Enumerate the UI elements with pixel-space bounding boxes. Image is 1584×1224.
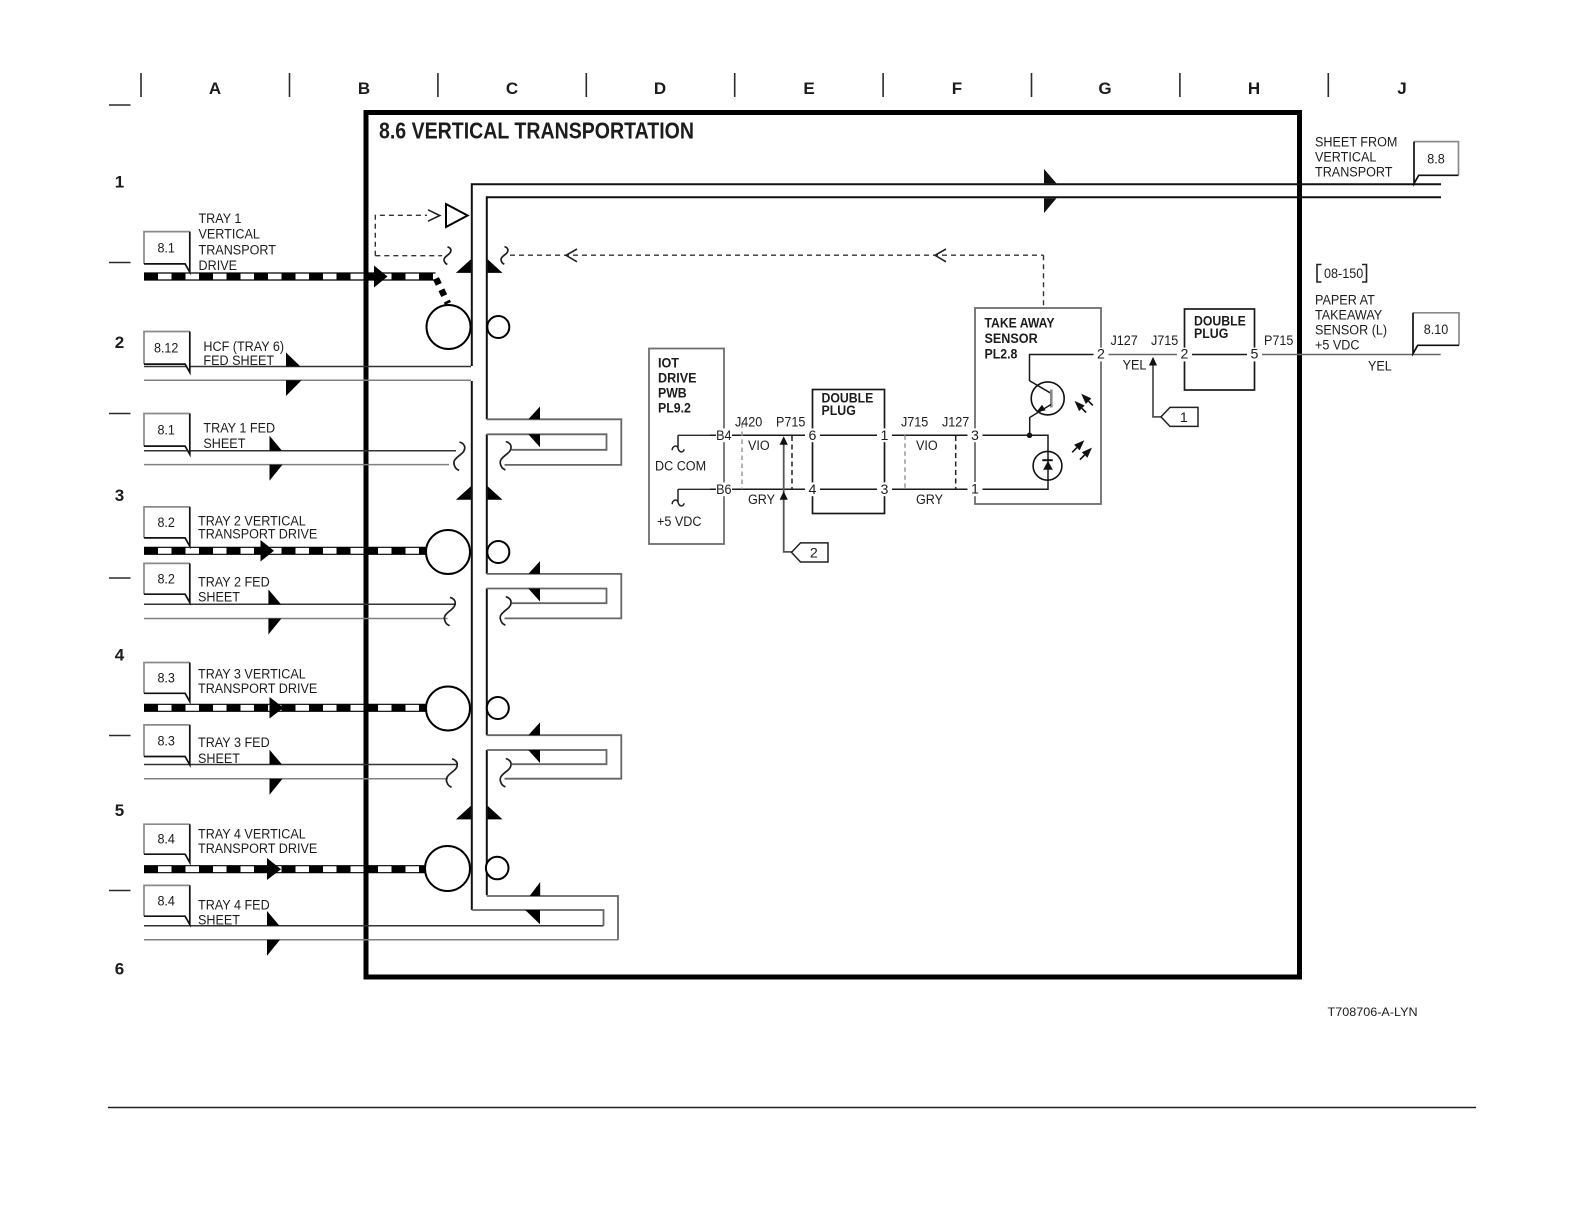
svg-text:PWB: PWB	[658, 386, 687, 401]
drive arrow tray3	[270, 697, 284, 719]
svg-text:FED SHEET: FED SHEET	[203, 353, 274, 369]
svg-text:8.6 VERTICAL TRANSPORTATION: 8.6 VERTICAL TRANSPORTATION	[379, 117, 694, 143]
Q1 emitter	[1030, 405, 1051, 436]
tray3 sheet arrows	[270, 750, 283, 765]
pin gaps + digits	[716, 348, 1262, 497]
svg-text:J: J	[1397, 79, 1406, 98]
flag 8.8	[1414, 142, 1459, 176]
channel left wall	[471, 183, 473, 910]
svg-text:5: 5	[1251, 346, 1259, 362]
adjust tag 08-150	[1317, 265, 1367, 283]
svg-text:C: C	[506, 79, 518, 98]
svg-text:VIO: VIO	[748, 438, 770, 454]
svg-text:PAPER AT: PAPER AT	[1315, 293, 1375, 309]
svg-text:8.1: 8.1	[157, 241, 175, 257]
flag 8.4 tray4 drive	[144, 824, 190, 854]
svg-text:H: H	[1248, 79, 1260, 98]
connector P715 dashed	[791, 436, 793, 489]
frame border	[366, 113, 1300, 978]
DP internal wires	[813, 434, 885, 436]
wire YEL sensor to DP2	[1101, 354, 1185, 356]
flag 8.2 tray2 drive	[144, 507, 190, 538]
DOUBLE PLUG box 2	[1185, 309, 1255, 390]
svg-text:8.2: 8.2	[157, 571, 175, 587]
svg-text:D: D	[654, 79, 666, 98]
drive stripe tray4	[144, 866, 425, 873]
tray2 inlet arrows	[528, 561, 540, 574]
svg-text:TRAY 2 FED: TRAY 2 FED	[198, 574, 270, 590]
svg-text:PL9.2: PL9.2	[658, 401, 691, 416]
sensor internal collector wire	[1030, 355, 1096, 394]
svg-text:SENSOR (L): SENSOR (L)	[1315, 323, 1387, 339]
svg-text:8.3: 8.3	[157, 671, 175, 687]
tray1 fed-sheet break curl left	[454, 442, 465, 471]
sheet arrow lower	[1044, 198, 1057, 213]
connector J715 dashed	[904, 435, 906, 489]
flag 8.1 tray1 fed	[144, 414, 190, 447]
svg-text:TRANSPORT: TRANSPORT	[1315, 165, 1393, 181]
flag 8.1 tray1 drive	[144, 232, 190, 264]
tray3 fed-sheet break curl left	[446, 759, 457, 788]
HCF sheet arrows	[286, 353, 301, 367]
svg-text:DRIVE: DRIVE	[199, 258, 238, 274]
svg-text:IOT: IOT	[658, 356, 680, 371]
pin B4 hook	[678, 434, 710, 436]
svg-text:PL2.8: PL2.8	[985, 347, 1018, 362]
wire B6-GRY	[710, 488, 813, 490]
svg-text:TRAY 3 FED: TRAY 3 FED	[198, 735, 270, 751]
tray2 fed-sheet break curl left	[444, 597, 455, 626]
svg-text:PLUG: PLUG	[822, 403, 856, 418]
tray3 inlet arrows	[528, 722, 540, 735]
tray1 inlet arrows	[528, 407, 540, 420]
svg-text:8.1: 8.1	[157, 422, 175, 438]
svg-text:SHEET: SHEET	[198, 912, 240, 928]
svg-text:5: 5	[115, 801, 124, 820]
tray4 inlet arrows	[530, 882, 541, 896]
wire + connector labels	[655, 333, 1392, 530]
svg-text:6: 6	[115, 960, 124, 979]
drive stripe tray3	[144, 704, 426, 711]
flag 8.2 tray2 fed	[144, 563, 190, 594]
svg-text:J127: J127	[942, 415, 969, 431]
connector J420 dashed	[741, 424, 743, 490]
tray1 fed sheet lines	[144, 450, 456, 452]
roller tray1 small	[487, 316, 509, 338]
svg-text:1: 1	[1180, 410, 1188, 426]
wire GRY DP to sensor	[885, 488, 976, 490]
svg-text:TAKEAWAY: TAKEAWAY	[1315, 308, 1383, 324]
svg-text:SHEET FROM: SHEET FROM	[1315, 135, 1397, 151]
flag 8.3 tray3 drive	[144, 663, 190, 694]
svg-text:GRY: GRY	[748, 492, 776, 508]
svg-text:TRAY 1 FED: TRAY 1 FED	[203, 420, 275, 436]
svg-text:8.2: 8.2	[157, 515, 175, 531]
pin B6 hook	[678, 488, 710, 490]
channel right wall	[486, 196, 488, 895]
svg-text:J127: J127	[1111, 333, 1138, 349]
svg-text:B6: B6	[716, 482, 731, 498]
svg-text:VIO: VIO	[916, 438, 938, 454]
svg-text:+5 VDC: +5 VDC	[1315, 338, 1360, 354]
svg-text:TRANSPORT: TRANSPORT	[199, 242, 277, 258]
svg-text:8.4: 8.4	[157, 893, 175, 909]
svg-text:8.8: 8.8	[1427, 152, 1445, 168]
svg-text:1: 1	[115, 173, 124, 192]
roller tray2 big	[426, 530, 470, 574]
svg-text:GRY: GRY	[916, 492, 944, 508]
flag 2 pointer line	[784, 444, 792, 552]
svg-text:1: 1	[971, 482, 979, 498]
drive arrow tray1	[374, 266, 388, 288]
tray1 fed-sheet break curl right	[500, 442, 511, 471]
svg-text:1: 1	[881, 428, 889, 444]
svg-text:YEL: YEL	[1123, 357, 1147, 373]
top entry curls	[444, 247, 451, 265]
left margin row dashes	[109, 104, 131, 106]
svg-text:4: 4	[115, 646, 125, 665]
tray4 sheet arrows	[267, 911, 280, 926]
svg-text:VERTICAL: VERTICAL	[1315, 150, 1376, 166]
sensor pin3 wire	[975, 435, 1048, 489]
HCF fed sheet lines	[144, 366, 471, 368]
flag 1	[1161, 407, 1198, 426]
flag 8.10	[1413, 313, 1459, 346]
svg-text:B4: B4	[716, 428, 731, 444]
flag 8.4 tray4 fed	[144, 885, 190, 916]
up-arrow pair 1	[456, 259, 471, 273]
svg-text:PLUG: PLUG	[1194, 326, 1228, 341]
svg-text:4: 4	[809, 482, 817, 498]
light arrows into Q1	[1082, 401, 1093, 412]
drive arrow tray2	[261, 540, 275, 562]
label paper at takeaway sensor	[1315, 293, 1387, 354]
tray2 sheet arrows	[268, 589, 281, 604]
svg-text:P715: P715	[776, 415, 805, 431]
tray3 inlet pocket	[487, 735, 622, 779]
svg-text:TRAY 1: TRAY 1	[199, 211, 242, 227]
roller tray4 small	[486, 857, 509, 880]
svg-text:+5 VDC: +5 VDC	[657, 514, 702, 530]
label sheet from vertical transport	[1315, 135, 1397, 181]
svg-text:DC COM: DC COM	[655, 459, 706, 475]
svg-text:TRANSPORT DRIVE: TRANSPORT DRIVE	[198, 527, 317, 543]
flag 1 pointer line	[1153, 365, 1161, 417]
roller tray3 small	[487, 697, 509, 719]
svg-text:YEL: YEL	[1368, 359, 1392, 375]
svg-text:TRANSPORT DRIVE: TRANSPORT DRIVE	[198, 681, 317, 697]
drive symbol (open triangle)	[446, 204, 468, 227]
svg-text:08-150: 08-150	[1324, 266, 1363, 282]
tray4 fed sheet lines (run straight into pocket)	[144, 925, 604, 927]
Q1 base bar	[1050, 390, 1053, 408]
box titles	[658, 314, 1246, 419]
IOT DRIVE PWB box U1	[649, 349, 724, 545]
tray3 fed-sheet break curl right	[500, 759, 511, 788]
tray2 inlet pocket	[487, 574, 622, 619]
svg-text:F: F	[952, 79, 962, 98]
tray2 fed sheet lines	[144, 603, 456, 605]
roller tray4 big	[425, 846, 470, 891]
flag 8.12 hcf	[144, 332, 190, 365]
svg-text:T708706-A-LYN: T708706-A-LYN	[1328, 1005, 1418, 1019]
dashed path arrowheads	[428, 210, 946, 262]
svg-text:SHEET: SHEET	[203, 436, 245, 452]
top sheet line upper	[471, 183, 1441, 185]
svg-text:DRIVE: DRIVE	[658, 371, 697, 386]
svg-text:3: 3	[115, 486, 124, 505]
svg-text:2: 2	[115, 333, 124, 352]
svg-text:A: A	[209, 79, 221, 98]
svg-text:8.4: 8.4	[157, 832, 175, 848]
svg-text:E: E	[803, 79, 814, 98]
svg-text:TRAY 4 FED: TRAY 4 FED	[198, 898, 270, 914]
svg-text:6: 6	[809, 428, 817, 444]
drive stripe tray2	[144, 547, 426, 554]
flag 8.3 tray3 fed	[144, 725, 190, 757]
junction dot	[1027, 433, 1033, 439]
svg-text:J715: J715	[1151, 333, 1178, 349]
svg-text:SENSOR: SENSOR	[985, 331, 1038, 346]
svg-text:TRANSPORT DRIVE: TRANSPORT DRIVE	[198, 841, 317, 857]
phototransistor Q1	[1031, 382, 1064, 415]
svg-text:8.12: 8.12	[154, 340, 179, 356]
TAKE AWAY SENSOR box Q1	[975, 308, 1101, 504]
svg-text:J420: J420	[735, 415, 762, 431]
roller tray2 small	[487, 541, 509, 563]
tray3 fed sheet lines	[144, 764, 457, 766]
wire YEL out	[1255, 354, 1441, 356]
svg-text:P715: P715	[1264, 333, 1293, 349]
tray4 inlet pocket	[472, 896, 618, 940]
svg-text:TAKE AWAY: TAKE AWAY	[985, 316, 1055, 331]
drive arrow tray4	[267, 858, 281, 880]
roller tray1 big	[427, 305, 471, 349]
DOUBLE PLUG box	[813, 390, 885, 514]
svg-text:VERTICAL: VERTICAL	[199, 227, 260, 243]
roller tray3 big	[426, 687, 470, 731]
up-arrow pair 2	[456, 486, 471, 500]
svg-text:2: 2	[1097, 346, 1105, 362]
svg-text:3: 3	[881, 482, 889, 498]
drive stripe tray1	[144, 273, 448, 304]
flag 2	[792, 543, 829, 562]
svg-text:SHEET: SHEET	[198, 590, 240, 606]
up-arrow pair 4	[456, 806, 471, 820]
svg-text:G: G	[1098, 79, 1111, 98]
tray1 sheet arrows	[270, 436, 283, 451]
dashed feedback path	[375, 215, 1043, 307]
svg-text:8.3: 8.3	[157, 733, 175, 749]
svg-text:B: B	[358, 79, 370, 98]
connector J127 dashed	[955, 436, 957, 489]
svg-text:8.10: 8.10	[1424, 322, 1449, 338]
svg-text:2: 2	[1181, 346, 1189, 362]
svg-text:3: 3	[971, 428, 979, 444]
tray1 inlet pocket	[487, 419, 622, 465]
column tick marks	[140, 73, 142, 97]
svg-text:2: 2	[810, 545, 818, 561]
wire VIO DP to sensor	[885, 434, 976, 436]
LED D1	[1033, 451, 1062, 480]
bottom rule	[108, 1107, 1476, 1109]
svg-text:J715: J715	[901, 415, 928, 431]
wire B4-VIO	[710, 434, 813, 436]
sheet arrow upper	[1044, 169, 1057, 183]
svg-text:SHEET: SHEET	[198, 751, 240, 767]
top sheet line lower	[486, 196, 1441, 198]
light arrows from LED	[1072, 448, 1084, 460]
tray2 fed-sheet break curl right	[500, 597, 511, 626]
